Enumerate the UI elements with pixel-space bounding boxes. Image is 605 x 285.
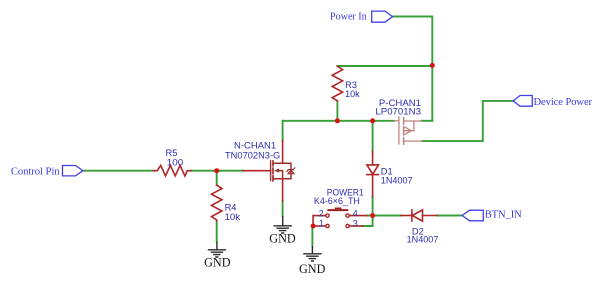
svg-text:K4-6×6_TH: K4-6×6_TH bbox=[314, 196, 360, 206]
svg-text:R5: R5 bbox=[166, 148, 178, 158]
svg-text:1N4007: 1N4007 bbox=[407, 234, 439, 244]
svg-text:3: 3 bbox=[353, 219, 358, 229]
svg-text:GND: GND bbox=[299, 262, 326, 276]
svg-text:100: 100 bbox=[167, 158, 184, 168]
svg-text:2: 2 bbox=[319, 209, 324, 219]
svg-text:4: 4 bbox=[353, 209, 358, 219]
svg-text:LP0701N3: LP0701N3 bbox=[375, 107, 421, 117]
svg-text:R4: R4 bbox=[225, 202, 237, 212]
svg-text:N-CHAN1: N-CHAN1 bbox=[234, 141, 276, 151]
svg-text:TN0702N3-G: TN0702N3-G bbox=[225, 150, 280, 160]
svg-text:Device Power: Device Power bbox=[534, 96, 593, 108]
svg-text:BTN_IN: BTN_IN bbox=[485, 209, 522, 221]
svg-text:Power In: Power In bbox=[330, 11, 368, 23]
svg-text:1: 1 bbox=[319, 219, 324, 229]
svg-text:1N4007: 1N4007 bbox=[381, 176, 413, 186]
svg-text:10k: 10k bbox=[345, 89, 360, 99]
svg-text:Control Pin: Control Pin bbox=[11, 166, 60, 178]
svg-text:GND: GND bbox=[204, 255, 231, 269]
svg-text:GND: GND bbox=[269, 231, 296, 245]
svg-text:10k: 10k bbox=[225, 212, 241, 222]
